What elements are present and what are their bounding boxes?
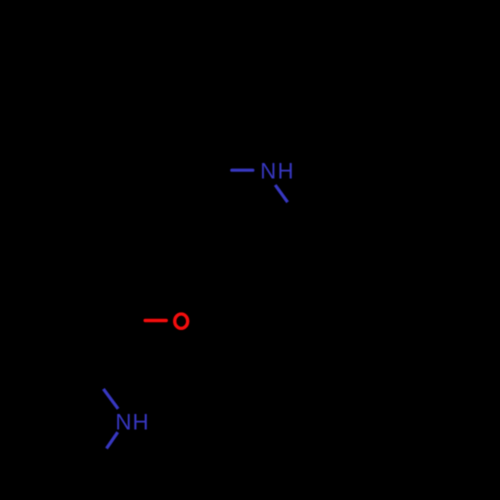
atom label O1 (ether oxygen) — [175, 314, 188, 328]
bond N1-C (blue half, diagonal down-right) — [275, 185, 287, 202]
bond C-N2 (blue half, diagonal from upper-left) — [103, 389, 118, 409]
bond C-O1 (red half, horizontal) — [145, 319, 166, 322]
bond N2-C (blue half, diagonal to lower-left) — [107, 432, 118, 448]
svg-text:NH: NH — [115, 409, 149, 434]
svg-text:NH: NH — [260, 158, 295, 183]
bond C-N1 (blue half, horizontal) — [232, 169, 253, 172]
